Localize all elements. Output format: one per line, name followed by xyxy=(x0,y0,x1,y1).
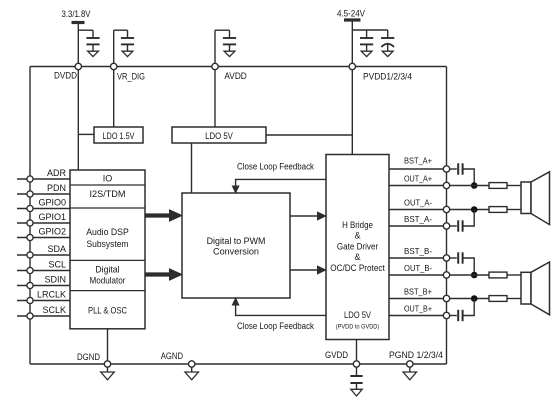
svg-text:Close Loop Feedback: Close Loop Feedback xyxy=(237,162,314,172)
svg-text:DVDD: DVDD xyxy=(54,71,77,81)
svg-text:H Bridge: H Bridge xyxy=(342,220,373,230)
svg-text:GPIO0: GPIO0 xyxy=(38,198,66,208)
svg-text:OUT_A+: OUT_A+ xyxy=(404,175,432,184)
svg-text:4.5-24V: 4.5-24V xyxy=(337,9,365,19)
svg-text:&: & xyxy=(354,231,360,241)
svg-text:LDO 1.5V: LDO 1.5V xyxy=(103,131,135,141)
svg-text:SDIN: SDIN xyxy=(44,275,66,285)
svg-text:(PVDD to GVDD): (PVDD to GVDD) xyxy=(336,324,379,331)
svg-text:I2S/TDM: I2S/TDM xyxy=(90,189,126,199)
svg-text:Conversion: Conversion xyxy=(213,247,259,257)
svg-text:PGND 1/2/3/4: PGND 1/2/3/4 xyxy=(389,350,443,360)
svg-text:GVDD: GVDD xyxy=(325,350,348,360)
svg-text:Gate Driver: Gate Driver xyxy=(337,242,378,252)
svg-text:BST_B+: BST_B+ xyxy=(404,288,432,297)
svg-text:BST_B-: BST_B- xyxy=(404,247,432,256)
svg-text:GPIO2: GPIO2 xyxy=(38,227,66,237)
svg-text:LRCLK: LRCLK xyxy=(37,290,66,300)
svg-text:BST_A+: BST_A+ xyxy=(404,157,432,166)
svg-text:AVDD: AVDD xyxy=(224,71,247,81)
svg-text:OC/DC Protect: OC/DC Protect xyxy=(330,263,385,273)
svg-text:PVDD1/2/3/4: PVDD1/2/3/4 xyxy=(363,72,412,82)
svg-text:3.3/1.8V: 3.3/1.8V xyxy=(62,9,91,19)
svg-text:Subsystem: Subsystem xyxy=(87,239,129,249)
svg-text:SCLK: SCLK xyxy=(42,305,66,315)
svg-text:Digital: Digital xyxy=(95,265,119,275)
svg-text:SCL: SCL xyxy=(48,260,66,270)
svg-text:AGND: AGND xyxy=(161,351,184,361)
svg-text:LDO 5V: LDO 5V xyxy=(344,310,371,320)
svg-text:Audio DSP: Audio DSP xyxy=(86,227,129,237)
svg-text:IO: IO xyxy=(103,174,113,184)
svg-text:OUT_A-: OUT_A- xyxy=(404,199,432,208)
svg-text:VR_DIG: VR_DIG xyxy=(117,72,145,82)
svg-text:GPIO1: GPIO1 xyxy=(38,212,66,222)
svg-text:&: & xyxy=(354,252,360,262)
svg-text:ADR: ADR xyxy=(47,168,67,178)
svg-text:DGND: DGND xyxy=(77,352,100,362)
svg-text:LDO 5V: LDO 5V xyxy=(205,131,233,141)
svg-text:BST_A-: BST_A- xyxy=(404,215,432,224)
svg-text:OUT_B+: OUT_B+ xyxy=(404,305,432,314)
svg-text:SDA: SDA xyxy=(47,244,66,254)
svg-text:Digital to PWM: Digital to PWM xyxy=(207,236,266,246)
svg-text:Modulator: Modulator xyxy=(90,276,126,286)
svg-text:OUT_B-: OUT_B- xyxy=(404,264,432,273)
svg-text:PLL & OSC: PLL & OSC xyxy=(88,306,127,316)
svg-text:PDN: PDN xyxy=(47,183,66,193)
svg-text:Close Loop Feedback: Close Loop Feedback xyxy=(237,321,314,331)
